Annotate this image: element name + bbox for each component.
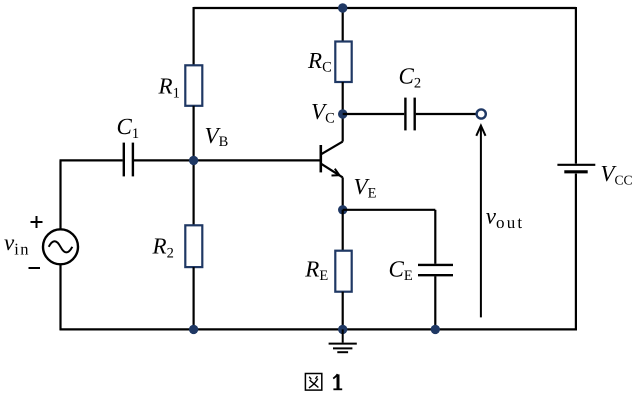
wire RC top lead (342, 8, 344, 42)
wire bottom rail (60, 328, 578, 330)
wire R1 top lead (193, 7, 195, 65)
svg-text:C2: C2 (399, 63, 422, 91)
wire VC to C2 (343, 113, 405, 115)
source plus sign (31, 216, 43, 228)
wire VE branch right (343, 209, 436, 211)
node VB (189, 156, 198, 165)
node VE (338, 205, 347, 214)
wire C2 to output terminal (416, 113, 476, 115)
resistor R2 (185, 225, 202, 267)
source minus sign (29, 267, 41, 269)
capacitor C2 (405, 98, 414, 131)
wire VE to RE (342, 210, 344, 251)
svg-text:R1: R1 (158, 74, 180, 102)
node bottom R2 (189, 325, 198, 334)
wire right rail lower (575, 174, 577, 330)
caption digit 1 (333, 374, 342, 389)
output terminal (477, 109, 486, 118)
wire source bottom lead (59, 264, 61, 330)
transistor Q1 emitter arrowhead (332, 169, 340, 176)
svg-text:VE: VE (354, 174, 377, 202)
wire CE top lead (434, 210, 436, 264)
svg-text:vin: vin (4, 230, 30, 258)
battery VCC short plate (564, 170, 587, 173)
svg-text:CE: CE (389, 256, 413, 284)
source vin sine (49, 241, 73, 252)
resistor RE (335, 251, 351, 292)
node top junction (338, 3, 347, 12)
wire input left segment (60, 159, 123, 161)
battery VCC long plate (557, 164, 595, 166)
resistor R1 (185, 65, 202, 106)
capacitor C1 (124, 143, 133, 177)
caption 図 1 (305, 374, 321, 391)
wire R2 bottom (193, 267, 195, 329)
transistor Q1 base bar (319, 145, 322, 172)
node bottom RE/ground (338, 325, 347, 334)
node bottom CE (431, 325, 440, 334)
wire source top lead (59, 160, 61, 229)
wire RC bottom through VC to collector (342, 82, 344, 142)
svg-text:VCC: VCC (600, 161, 632, 187)
wire R1 bottom to VB (193, 106, 195, 161)
wire top rail (194, 7, 576, 9)
node VC (338, 109, 347, 118)
resistor RC (335, 42, 351, 83)
wire emitter vertical to VE (342, 177, 344, 209)
capacitor CE (418, 265, 453, 275)
transistor Q1 collector diagonal (321, 142, 343, 155)
arrow vout (476, 126, 485, 318)
svg-text:C1: C1 (117, 114, 140, 142)
transistor Q1 emitter diagonal (321, 164, 343, 178)
svg-text:RE: RE (304, 256, 328, 284)
svg-text:vout: vout (486, 204, 525, 233)
wire CE bottom lead (434, 276, 436, 329)
wire input right segment (to base) (134, 159, 321, 161)
ground (329, 329, 357, 352)
source vin circle (43, 229, 78, 264)
svg-text:VC: VC (311, 99, 335, 127)
wire right rail upper (575, 7, 577, 164)
wire RE bottom (342, 292, 344, 330)
wire VB to R2 (193, 160, 195, 225)
svg-text:RC: RC (307, 48, 332, 76)
svg-text:VB: VB (205, 123, 229, 150)
svg-text:R2: R2 (152, 234, 174, 262)
